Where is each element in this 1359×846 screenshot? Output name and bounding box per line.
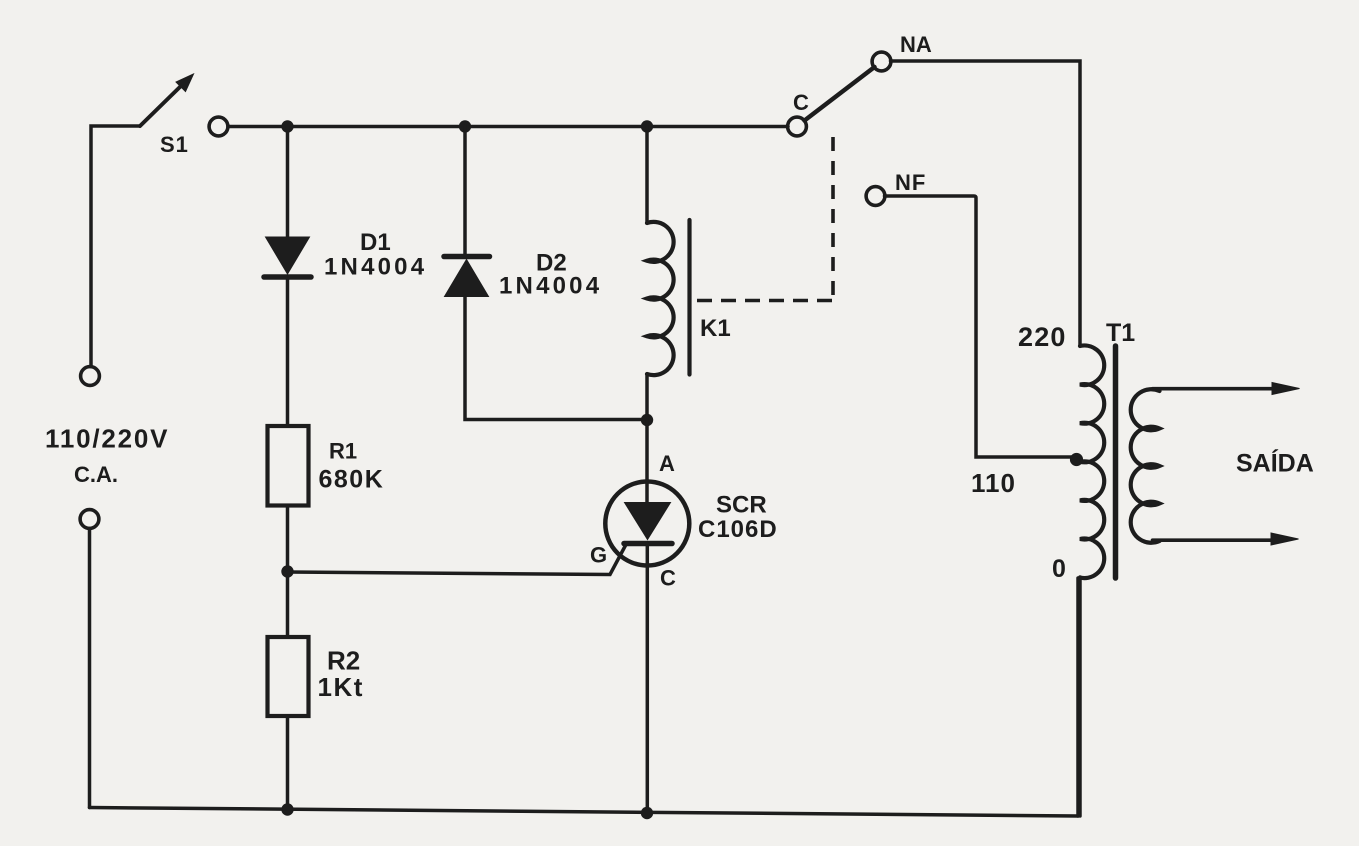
wire secondary bottom [1153,538,1274,542]
diode D2 cathode bar [444,254,490,260]
terminal left upper circle [81,367,100,386]
wire R2 to bottom rail [286,716,290,810]
resistor R2 body [268,637,309,716]
svg-text:S1: S1 [160,132,189,157]
wire D1 to R1 [286,279,290,426]
node junction gate [281,565,293,577]
wire NF to tap [885,196,1073,457]
SCR U1 triangle [625,503,671,540]
node junction anode [641,414,653,426]
wire top rail [228,125,788,129]
transformer T1 secondary coil [1131,389,1160,542]
svg-text:R1: R1 [329,439,357,464]
wire R1 to R2 [286,506,290,638]
contact NA circle [872,52,891,71]
wire D1 branch upper [286,127,290,239]
dashed link vertical [831,130,835,295]
SCR U1 circle [605,482,689,566]
svg-text:C: C [660,566,676,591]
svg-text:A: A [659,451,675,476]
node junction D2 top [459,120,471,132]
svg-text:110/220V: 110/220V [45,424,169,454]
resistor R1 body [268,426,309,506]
svg-text:C106D: C106D [698,516,778,543]
transformer T1 core [1113,346,1119,578]
diode D1 triangle [266,237,310,274]
dashed link horizontal [697,299,836,303]
node junction bottom left [281,803,293,815]
diode D2 triangle [445,260,489,297]
svg-text:220: 220 [1018,322,1067,352]
transformer T1 primary coil [1080,346,1104,579]
wire D2 branch lower [465,297,647,420]
relay core bar K1 [687,220,691,375]
wire left rail bottom [88,529,92,808]
svg-text:T1: T1 [1106,319,1135,347]
arrow secondary bottom [1271,533,1299,545]
svg-text:1N4004: 1N4004 [324,254,427,281]
wire SCR cathode to bottom rail [646,544,650,814]
contact C circle [788,117,807,136]
contact lever C to NA [805,67,875,121]
wire gate [288,544,627,575]
svg-text:G: G [590,543,607,568]
wire K1 to node A [645,374,649,420]
arrow secondary top [1272,383,1300,395]
terminal left lower circle [80,510,99,529]
svg-text:NA: NA [900,32,932,57]
node junction 110 tap [1070,453,1083,466]
wire anode to SCR [645,420,649,503]
svg-text:1Kt: 1Kt [318,672,364,702]
svg-text:110: 110 [971,468,1016,498]
wire bottom rail [90,808,1079,817]
node junction D1 top [281,120,293,132]
wire primary bottom [1078,577,1082,816]
wire K1 branch upper [645,127,649,224]
wire left rail top [91,126,140,367]
switch S1 lever [140,83,184,126]
terminal S1 right circle [209,117,228,136]
svg-text:1N4004: 1N4004 [499,273,602,300]
contact NF circle [866,187,885,206]
svg-text:C.A.: C.A. [74,462,118,487]
svg-text:SAÍDA: SAÍDA [1236,449,1314,478]
svg-text:NF: NF [895,170,926,195]
diode D1 cathode bar [264,274,311,280]
svg-text:K1: K1 [700,315,731,342]
svg-text:C: C [793,90,809,115]
node junction bottom center [641,807,653,819]
svg-text:SCR: SCR [716,492,767,519]
wire right rail [1076,578,1080,816]
svg-text:D1: D1 [360,229,391,256]
wire secondary top [1153,387,1275,391]
svg-text:0: 0 [1052,555,1066,583]
switch S1 arrowhead [176,74,194,92]
wire D2 branch upper [463,127,467,255]
relay coil K1 [647,222,674,375]
wire NA to transformer [891,61,1081,346]
node junction K1 top [641,120,653,132]
SCR U1 cathode bar [624,541,672,547]
svg-text:680K: 680K [319,466,385,494]
svg-text:R2: R2 [327,646,360,676]
